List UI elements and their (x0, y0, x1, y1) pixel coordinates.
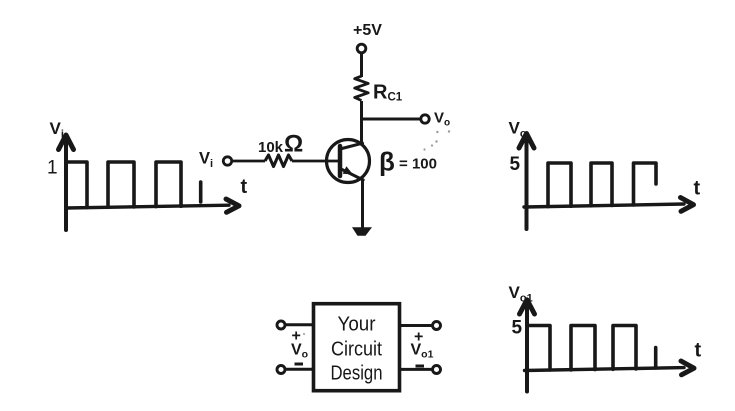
svg-text:Circuit: Circuit (331, 339, 382, 361)
svg-text:10k: 10k (258, 139, 284, 156)
svg-text:+5V: +5V (353, 22, 382, 39)
svg-text:1: 1 (47, 158, 58, 179)
svg-text:t: t (695, 340, 702, 362)
svg-text:5: 5 (510, 154, 521, 175)
svg-text:Ω: Ω (284, 131, 303, 158)
svg-text:t: t (694, 178, 701, 200)
svg-text:Design: Design (331, 363, 383, 385)
svg-text:5: 5 (512, 318, 523, 339)
svg-text:t: t (241, 176, 248, 198)
svg-text:Your: Your (338, 314, 376, 336)
